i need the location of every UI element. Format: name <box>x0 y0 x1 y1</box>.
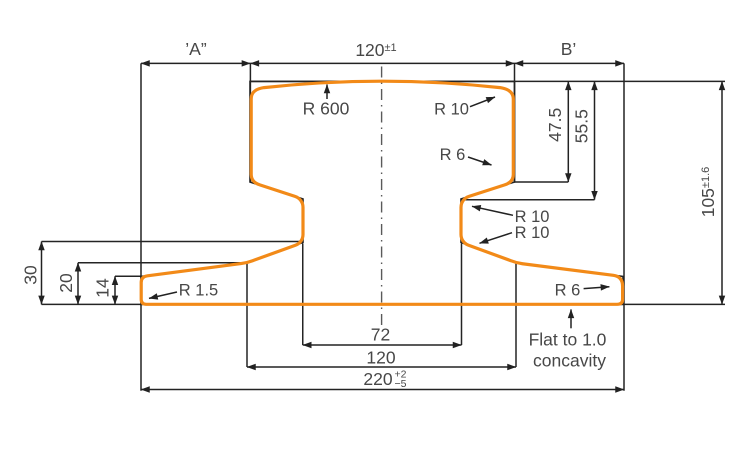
svg-text:Flat to 1.0: Flat to 1.0 <box>529 330 607 350</box>
svg-text:B’: B’ <box>561 39 577 59</box>
svg-text:R 10: R 10 <box>515 224 550 242</box>
svg-text:105±1.6: 105±1.6 <box>698 167 718 218</box>
svg-text:−5: −5 <box>395 378 407 390</box>
svg-text:R 10: R 10 <box>434 101 469 119</box>
svg-text:47.5: 47.5 <box>545 108 565 142</box>
svg-text:R 600: R 600 <box>303 99 350 119</box>
svg-text:R 6: R 6 <box>440 146 466 164</box>
svg-text:120±1: 120±1 <box>355 40 396 60</box>
svg-text:14: 14 <box>93 278 113 298</box>
svg-text:R 6: R 6 <box>555 282 581 300</box>
svg-text:concavity: concavity <box>533 351 606 371</box>
svg-text:R 1.5: R 1.5 <box>179 282 218 300</box>
svg-text:20: 20 <box>56 273 76 293</box>
svg-text:220: 220 <box>363 369 392 389</box>
svg-text:’A”: ’A” <box>185 39 207 59</box>
svg-text:30: 30 <box>21 265 41 285</box>
svg-text:72: 72 <box>371 325 390 345</box>
svg-text:120: 120 <box>366 348 395 368</box>
svg-text:55.5: 55.5 <box>572 109 592 143</box>
